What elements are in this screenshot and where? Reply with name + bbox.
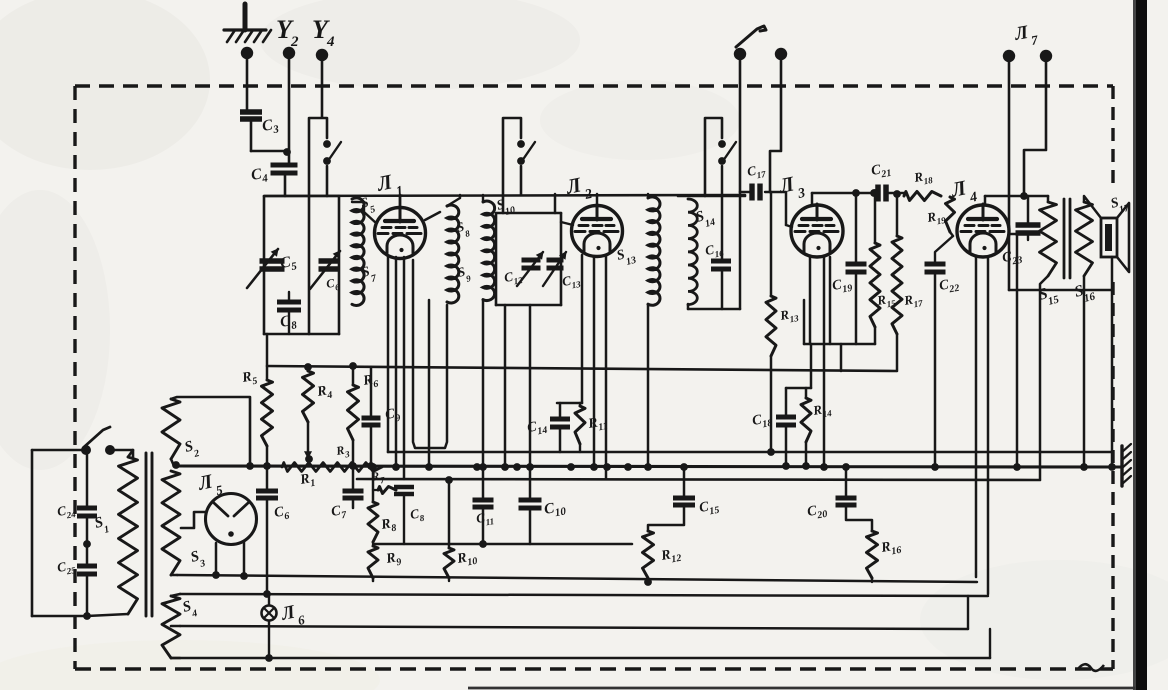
wire S15 bottom — [1040, 276, 1048, 479]
label C23 — [1001, 248, 1023, 269]
rail S14 top — [678, 195, 745, 198]
tube L3 lead b — [820, 257, 828, 471]
label C6 — [273, 504, 290, 524]
plate wire down — [1013, 234, 1021, 471]
label S4 — [181, 598, 199, 620]
wire S16 bottom — [1080, 276, 1088, 471]
label R17 — [902, 290, 924, 311]
resistor R11 — [575, 403, 585, 452]
wire S14 bottom rail — [688, 192, 740, 309]
switch right wire — [770, 60, 781, 192]
label S10 — [495, 197, 516, 218]
capacitor C3 — [240, 112, 262, 151]
svg-text:4: 4 — [326, 34, 335, 50]
variable capacitor C5 — [247, 249, 285, 288]
resistor R13 — [766, 192, 776, 456]
label S7 — [360, 264, 378, 285]
bus y452 — [388, 451, 1112, 454]
mains loop — [31, 450, 34, 616]
bus junction x429 — [425, 463, 433, 471]
variable capacitor C12 — [517, 252, 543, 286]
band switch 1 — [309, 118, 341, 334]
resistor R12 — [643, 531, 654, 586]
tube L1 lead b — [392, 257, 400, 471]
power switch (top) — [734, 26, 787, 60]
capacitor C20 — [836, 463, 873, 531]
page edge shadow — [1135, 0, 1142, 690]
label L5 — [195, 470, 224, 498]
label C22 — [938, 276, 960, 297]
label C13 — [561, 271, 582, 292]
terminal Y4 — [316, 49, 328, 117]
resistor R14 — [801, 388, 811, 470]
label R16 — [879, 538, 902, 559]
tube L1 lead d — [428, 300, 431, 466]
tube L1 plate wire — [425, 212, 440, 220]
label C8 — [279, 311, 299, 334]
capacitor C17 — [740, 184, 770, 201]
tube L1 — [375, 207, 426, 259]
label C14 — [526, 418, 548, 439]
label R8 — [379, 516, 397, 536]
label L4 — [948, 175, 979, 206]
label R3 — [334, 442, 351, 461]
grid wire coil to tube L1 — [352, 202, 376, 223]
winding S16 — [1076, 202, 1093, 276]
capacitor C14 — [550, 403, 570, 452]
tube L3 lead c — [829, 257, 832, 344]
tube L4 plate stub — [1009, 233, 1017, 236]
tube L4 — [957, 204, 1009, 257]
tube L3 — [791, 204, 843, 257]
resistor R18 — [904, 192, 941, 201]
tube L3 lead a — [809, 257, 812, 344]
label R1 — [298, 471, 316, 491]
label S8 — [455, 219, 471, 239]
tuning box outline — [264, 196, 339, 334]
capacitor C9 — [362, 367, 381, 470]
label C20 — [806, 502, 828, 523]
rail ends vertical — [968, 596, 990, 658]
label C16 — [704, 240, 725, 261]
tube L5 leads — [216, 542, 244, 576]
capacitor C25 — [77, 547, 97, 620]
label C21 — [870, 161, 892, 182]
wire C4 to box — [284, 173, 287, 196]
terminal Y4 label — [312, 15, 335, 50]
mains wire bottom — [32, 615, 87, 618]
coil S5 — [352, 198, 364, 306]
capacitor C18 — [776, 388, 796, 470]
label C25 — [56, 557, 77, 578]
label L6 — [279, 601, 307, 627]
grid wire box2 to L2 — [561, 222, 573, 225]
wire phones bottom — [1009, 289, 1112, 292]
cathode bracket L2 — [557, 402, 582, 405]
tube L1 lead c — [403, 257, 406, 479]
label C8b — [409, 505, 426, 525]
label L7 — [1012, 22, 1039, 48]
label S9 — [456, 264, 472, 284]
rail4 y196 — [985, 195, 1048, 198]
rail top y194 — [264, 195, 745, 196]
label R5 — [240, 369, 258, 389]
label C5 — [279, 252, 299, 275]
wire L7 right to rail4 — [1020, 62, 1046, 200]
label S14 — [694, 208, 717, 230]
resistor R8 R9 column — [368, 463, 378, 581]
label S1 — [93, 514, 111, 536]
terminal L7 right — [1040, 50, 1052, 62]
winding S2 — [162, 397, 254, 470]
bus junction x607 — [603, 463, 611, 471]
rail y366 (screen feed) — [267, 366, 896, 371]
resistor R10 — [444, 476, 454, 581]
tube L2 lead c — [605, 256, 608, 479]
rail y544 — [373, 543, 632, 546]
label S2 — [183, 438, 201, 460]
resistor R17 — [892, 190, 902, 371]
terminal Y2 — [283, 47, 295, 59]
winding S3 — [162, 471, 180, 575]
resistor R16 — [867, 531, 878, 582]
wire S16 top to speaker — [1084, 196, 1101, 218]
resistor R15 — [870, 189, 880, 344]
label L1 — [374, 169, 405, 200]
wire rail to box2 — [554, 194, 557, 213]
box 2 outline — [496, 213, 561, 305]
label R12 — [659, 546, 682, 567]
label S15 — [1037, 285, 1061, 308]
label C11 — [475, 508, 495, 529]
filament loop U — [413, 260, 447, 448]
wire S13 bottom down — [644, 304, 652, 471]
tube L2 top stub — [596, 194, 599, 206]
resistor R5 — [262, 334, 273, 470]
bus junction x517 — [513, 463, 521, 471]
capacitor C19 — [846, 189, 867, 344]
capacitor C10 — [519, 467, 542, 544]
band switch 3 — [705, 118, 736, 196]
ground terminal dot — [241, 47, 253, 112]
rail y577 — [177, 571, 977, 582]
coil S6 (plate coil) — [447, 205, 459, 303]
transformer core — [146, 453, 152, 616]
coil S13 — [648, 194, 660, 305]
terminal L7 left — [1003, 50, 1015, 62]
wire speaker down — [1108, 257, 1116, 471]
cathode bracket L3 — [786, 344, 811, 388]
rail3 y193 — [812, 189, 878, 197]
capacitor C4 — [271, 165, 298, 173]
label C12 — [503, 267, 524, 288]
tube L5 (rectifier) — [206, 494, 257, 545]
coil S14 — [688, 199, 697, 305]
tube L4 top stub — [984, 196, 987, 205]
resistor R19 — [946, 197, 955, 236]
label R19 — [925, 207, 947, 228]
label C17 — [746, 161, 767, 182]
tube L5 left arm — [181, 512, 206, 528]
coil S10 (secondary) — [483, 195, 495, 301]
label C7 — [330, 503, 348, 523]
label C9 — [384, 406, 401, 426]
label C19 — [831, 276, 853, 297]
label S13 — [615, 247, 637, 268]
label C3 — [261, 115, 281, 138]
ground symbol (antenna earth) — [224, 4, 271, 42]
wire R19 to C22 — [935, 236, 953, 264]
mains wire top — [32, 449, 82, 452]
tube L2 — [572, 205, 623, 257]
switch left wire — [739, 60, 742, 192]
tube L4 lead a — [975, 257, 978, 577]
label R15 — [875, 290, 897, 311]
resistor R6 — [348, 362, 359, 470]
label R4 — [315, 383, 333, 403]
wire S10 bottom down — [479, 300, 487, 471]
potentiometer R1 — [282, 463, 382, 472]
wire Y2 down — [288, 53, 291, 165]
capacitor C22 — [925, 264, 946, 471]
label S17 — [1109, 195, 1131, 216]
capacitor C11 — [473, 467, 494, 548]
capacitor C7 — [343, 466, 364, 508]
label S5 — [359, 195, 376, 216]
capacitor C15 — [648, 463, 695, 531]
chassis hatch — [1122, 444, 1131, 486]
box2 bottom leads — [501, 305, 534, 471]
capacitor C8 — [277, 292, 301, 334]
label R9 — [384, 550, 402, 570]
trimmer label — [325, 275, 341, 294]
wire C3 to Y2 node — [251, 148, 291, 156]
tube L2 lead a — [581, 255, 584, 403]
tube L2 lead b — [590, 256, 598, 471]
dashed chassis border — [75, 86, 1113, 671]
band switch 2 — [503, 118, 535, 213]
label S16 — [1073, 282, 1097, 305]
label L3 — [776, 171, 807, 202]
cathode node bar — [804, 300, 875, 371]
output transformer core — [1064, 199, 1070, 278]
bus junction x477 — [473, 463, 481, 471]
variable capacitor C13 — [543, 252, 566, 286]
bus y479 — [357, 479, 1040, 480]
label C10 — [543, 498, 567, 520]
variable trimmer capacitor — [310, 251, 340, 289]
capacitor C6 — [256, 466, 278, 598]
page bottom edge line — [468, 687, 1135, 690]
label R7 — [369, 468, 386, 487]
terminal Y2 label — [276, 15, 299, 50]
label R14 — [811, 400, 833, 421]
winding S1 (primary) — [87, 450, 138, 616]
lamp L6 (dial lamp) — [262, 594, 277, 662]
capacitor C23 — [1016, 196, 1041, 240]
mains switch — [81, 427, 115, 455]
wire L7 left down — [1008, 62, 1011, 290]
tube L3 grid wire — [786, 225, 792, 227]
label S3 — [189, 548, 207, 570]
label C24 — [56, 501, 77, 522]
winding S15 — [1040, 196, 1057, 276]
rail y594 — [180, 594, 988, 596]
speaker — [1101, 203, 1129, 272]
tube L3 top stub — [811, 193, 814, 204]
wiper junction — [305, 455, 313, 463]
tube L4 lead b — [987, 257, 990, 594]
bus junction x571 — [567, 463, 575, 471]
capacitor C21 (series) — [878, 185, 904, 202]
label C4 — [250, 164, 270, 187]
grid coupling wire — [770, 192, 786, 225]
tube L1 lead a — [387, 256, 390, 452]
label R11 — [586, 414, 609, 435]
capacitor C24 — [77, 455, 97, 548]
rail y658 — [172, 657, 990, 660]
rail y626 — [180, 626, 968, 629]
capacitor C16 — [711, 166, 731, 309]
label R6 — [361, 372, 379, 392]
label C15 — [698, 498, 720, 519]
resistor R4 — [303, 363, 314, 458]
label L2 — [563, 172, 594, 203]
label C18 — [751, 411, 773, 432]
resistor R7 and C8 — [373, 487, 414, 545]
main bus y467 — [172, 461, 1122, 469]
wire S6 top to rail — [447, 195, 460, 206]
bus junction x628 — [624, 463, 632, 471]
winding S4 — [162, 594, 180, 658]
label R10 — [455, 549, 478, 570]
tube L1 top stub — [399, 195, 402, 209]
label R13 — [778, 305, 800, 326]
wire switch to S1 — [110, 450, 133, 457]
label R18 — [912, 167, 934, 188]
